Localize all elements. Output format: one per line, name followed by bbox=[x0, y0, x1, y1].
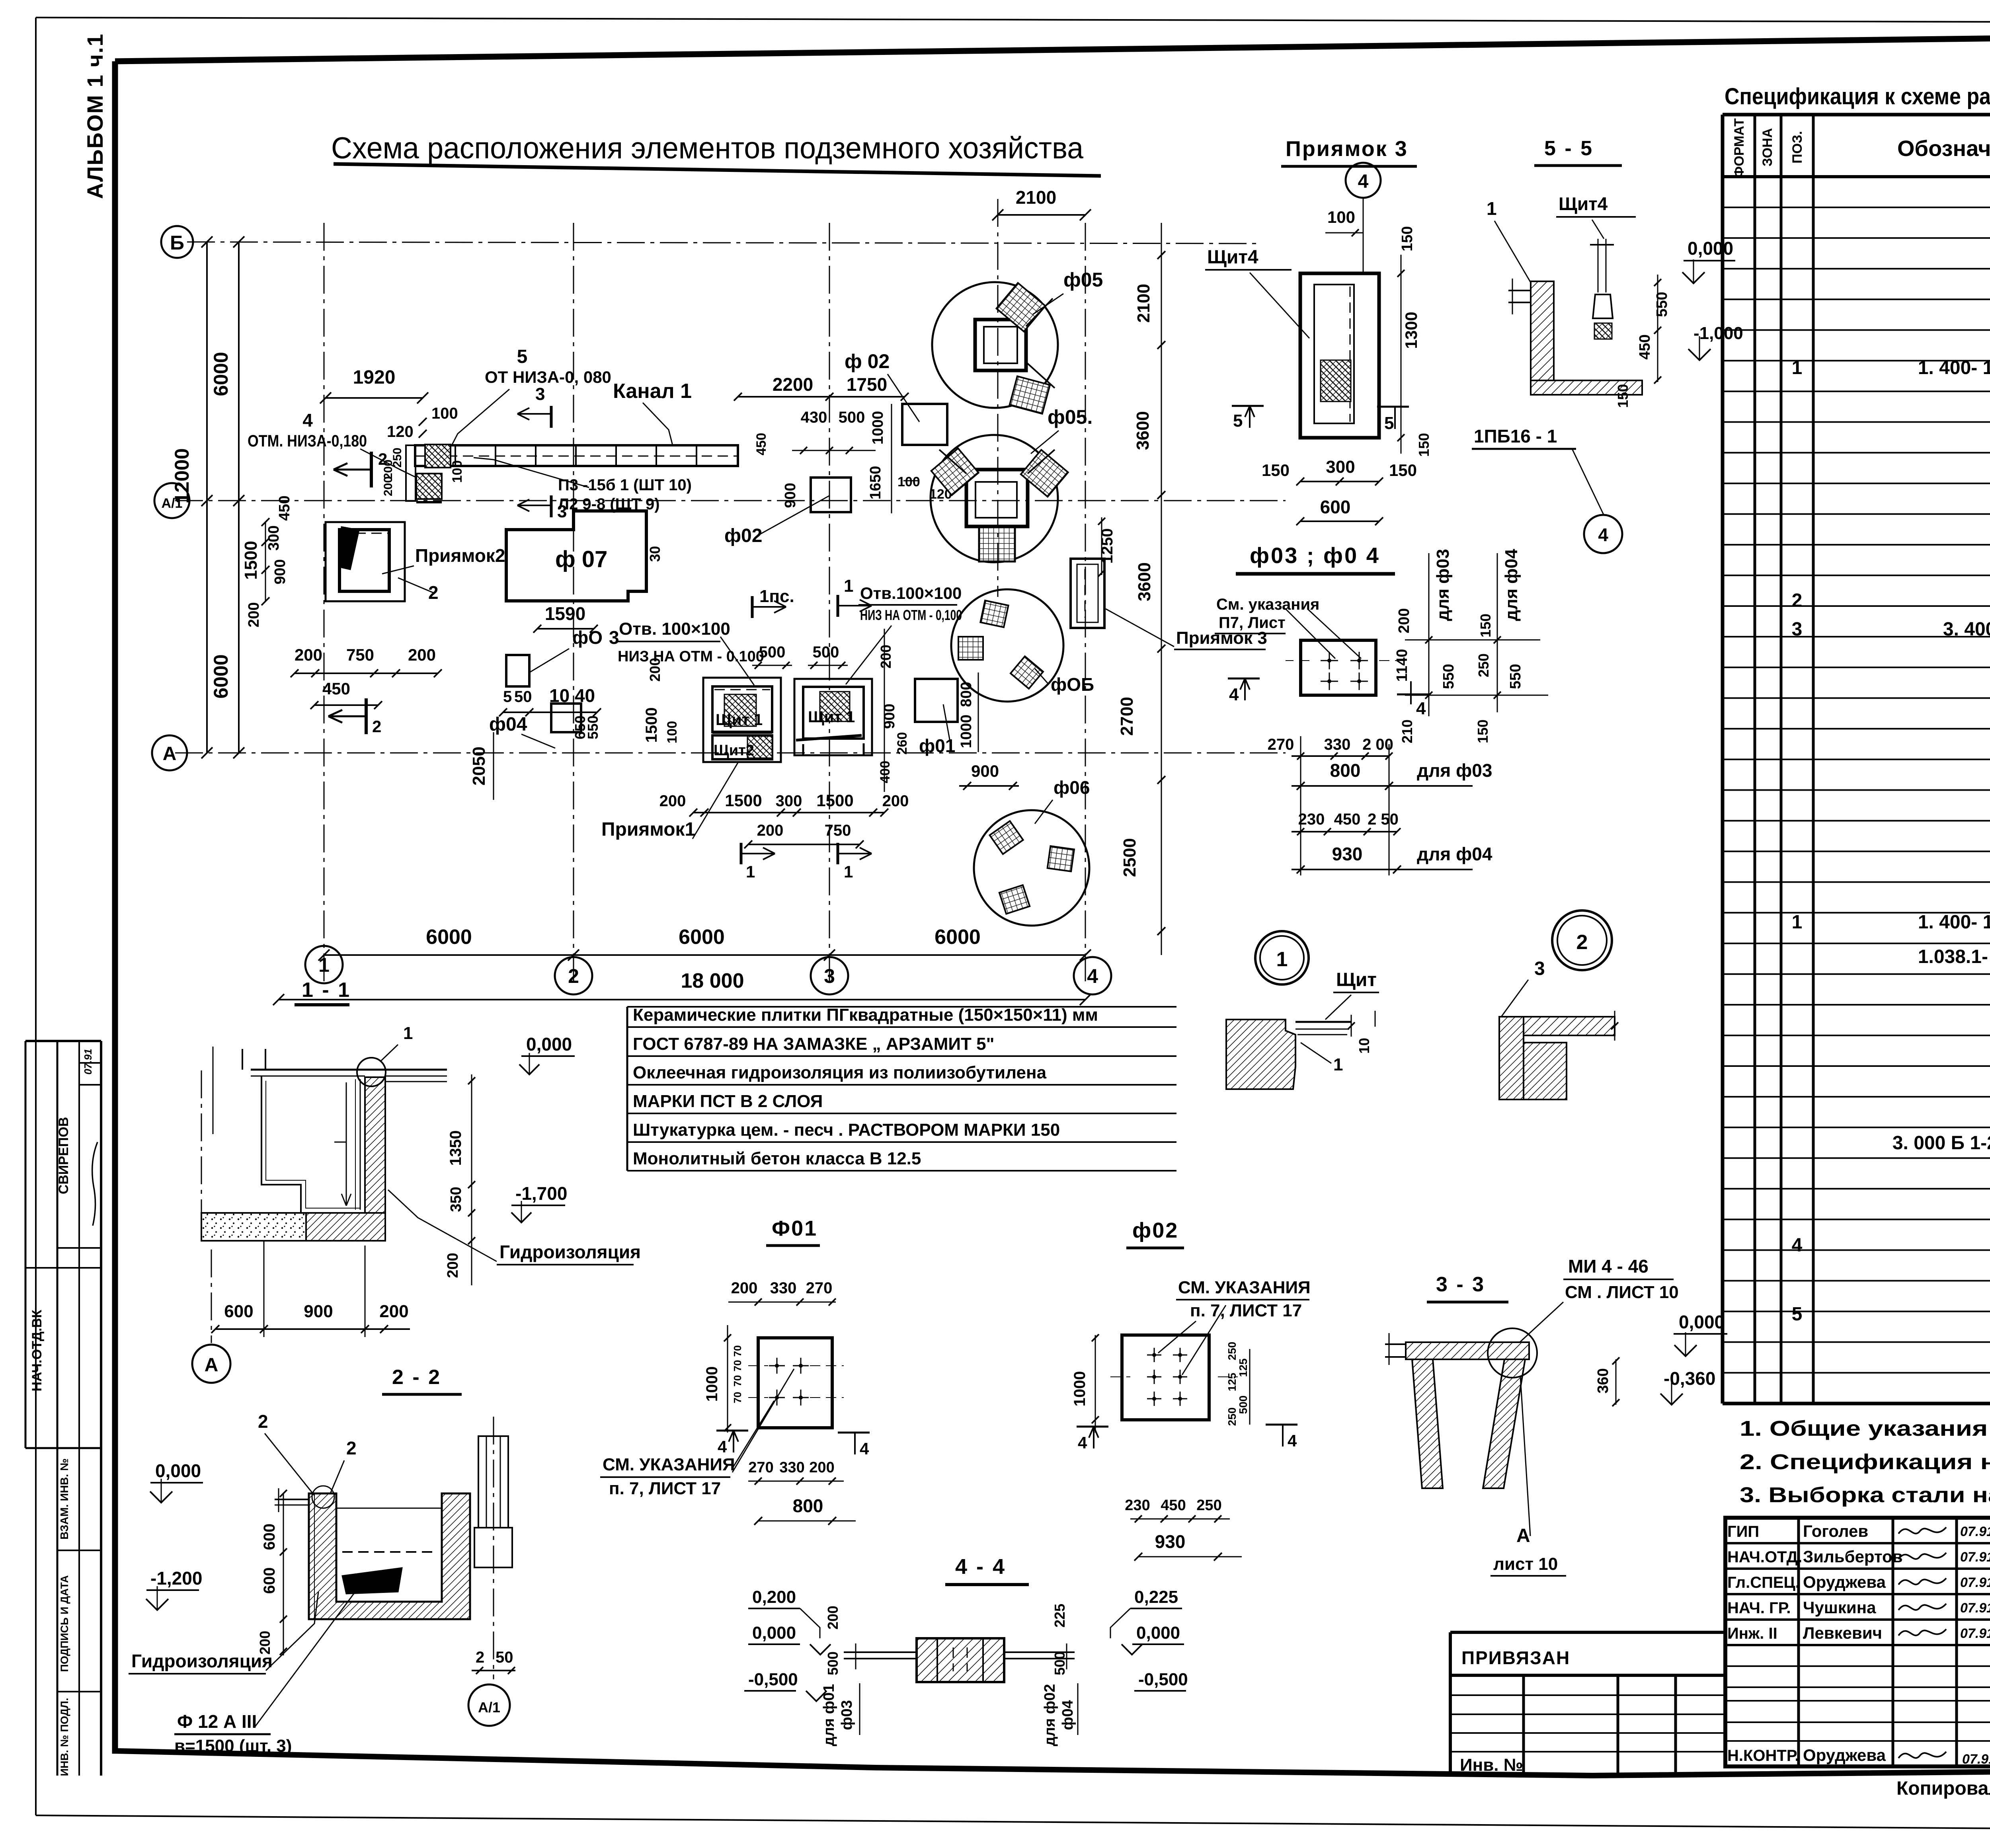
svg-text:1: 1 bbox=[1792, 357, 1803, 378]
svg-text:3: 3 bbox=[1534, 958, 1545, 979]
svg-text:2100: 2100 bbox=[1134, 284, 1153, 323]
svg-text:4: 4 bbox=[1087, 965, 1098, 987]
svg-text:АЛЬБОМ 1 ч.1: АЛЬБОМ 1 ч.1 bbox=[82, 33, 107, 199]
svg-text:900: 900 bbox=[881, 704, 898, 729]
svg-text:70: 70 bbox=[732, 1392, 743, 1404]
svg-text:0,000: 0,000 bbox=[752, 1623, 796, 1643]
svg-text:1500: 1500 bbox=[643, 708, 660, 743]
svg-text:500: 500 bbox=[759, 643, 786, 661]
svg-text:1300: 1300 bbox=[1402, 312, 1420, 349]
svg-text:750: 750 bbox=[825, 822, 851, 839]
svg-text:1750: 1750 bbox=[847, 374, 887, 395]
svg-text:для ф01: для ф01 bbox=[821, 1684, 837, 1747]
svg-text:4: 4 bbox=[1416, 699, 1426, 718]
svg-text:ф04: ф04 bbox=[489, 714, 527, 735]
svg-text:125: 125 bbox=[1237, 1359, 1249, 1377]
svg-text:ГОСТ 6787-89 НА ЗАМАЗКЕ „ А: ГОСТ 6787-89 НА ЗАМАЗКЕ „ АРЗАМИТ 5" bbox=[633, 1034, 994, 1054]
svg-text:200: 200 bbox=[445, 1253, 461, 1278]
svg-text:Канал 1: Канал 1 bbox=[613, 380, 692, 403]
svg-text:для ф04: для ф04 bbox=[1502, 549, 1521, 621]
svg-text:5: 5 bbox=[1792, 1304, 1803, 1325]
svg-text:2: 2 bbox=[476, 1649, 484, 1666]
svg-text:Ф01: Ф01 bbox=[772, 1216, 817, 1240]
svg-text:120: 120 bbox=[387, 423, 414, 441]
svg-text:4: 4 bbox=[860, 1439, 869, 1458]
svg-text:550: 550 bbox=[1654, 292, 1670, 317]
svg-text:для ф04: для ф04 bbox=[1417, 844, 1492, 864]
svg-text:550: 550 bbox=[1507, 664, 1524, 689]
svg-text:Ф 12 А III: Ф 12 А III bbox=[177, 1711, 257, 1732]
svg-text:70: 70 bbox=[732, 1345, 743, 1357]
svg-text:200: 200 bbox=[731, 1279, 758, 1297]
svg-text:ОТМ. НИЗА-0,180: ОТМ. НИЗА-0,180 bbox=[248, 431, 367, 450]
svg-text:200: 200 bbox=[379, 1302, 408, 1321]
svg-text:150: 150 bbox=[1399, 226, 1416, 251]
svg-text:МАРКИ ПСТ В 2 СЛОЯ: МАРКИ ПСТ В 2 СЛОЯ bbox=[633, 1092, 823, 1111]
svg-text:п. 7, ЛИСТ 17: п. 7, ЛИСТ 17 bbox=[609, 1479, 721, 1498]
svg-text:200: 200 bbox=[757, 822, 784, 839]
svg-text:500: 500 bbox=[1052, 1651, 1068, 1675]
svg-text:270: 270 bbox=[1268, 736, 1294, 753]
svg-text:500: 500 bbox=[825, 1651, 841, 1675]
svg-text:3. 400- 6/76: 3. 400- 6/76 bbox=[1943, 619, 1990, 640]
svg-text:1. 400- 15, вып.1: 1. 400- 15, вып.1 bbox=[1918, 357, 1990, 378]
svg-text:СМ . ЛИСТ 10: СМ . ЛИСТ 10 bbox=[1565, 1283, 1679, 1302]
svg-text:Щит: Щит bbox=[1336, 969, 1377, 990]
svg-text:Керамические плитки ПГквадра: Керамические плитки ПГквадратные (150×15… bbox=[633, 1005, 1098, 1025]
svg-text:5: 5 bbox=[517, 346, 528, 367]
svg-text:100: 100 bbox=[431, 405, 458, 422]
svg-text:200: 200 bbox=[659, 792, 686, 810]
svg-text:900: 900 bbox=[304, 1302, 333, 1321]
svg-text:для ф02: для ф02 bbox=[1042, 1684, 1058, 1747]
svg-text:250: 250 bbox=[1226, 1407, 1238, 1426]
svg-text:300: 300 bbox=[776, 792, 802, 810]
svg-text:фО: фО bbox=[572, 627, 603, 648]
svg-text:330: 330 bbox=[779, 1459, 804, 1476]
svg-text:200: 200 bbox=[408, 645, 436, 664]
svg-text:3. 000 Б 1-2. 87, вып.1: 3. 000 Б 1-2. 87, вып.1 bbox=[1892, 1133, 1990, 1154]
svg-text:07.91: 07.91 bbox=[1960, 1600, 1990, 1616]
svg-text:Левкевич: Левкевич bbox=[1803, 1624, 1882, 1642]
svg-text:2. Спецификация на Ф01 ÷: 2. Спецификация на Ф01 ÷ Ф04 дана на лис… bbox=[1740, 1450, 1990, 1474]
svg-text:600: 600 bbox=[1320, 497, 1351, 517]
svg-text:для ф03: для ф03 bbox=[1417, 760, 1492, 781]
svg-text:ОТ НИЗА-0, 080: ОТ НИЗА-0, 080 bbox=[485, 368, 611, 386]
svg-text:ПРИВЯЗАН: ПРИВЯЗАН bbox=[1461, 1647, 1570, 1668]
svg-text:250: 250 bbox=[1226, 1342, 1238, 1361]
svg-text:1. 400- 15, вып.1: 1. 400- 15, вып.1 bbox=[1918, 912, 1990, 933]
svg-text:2 - 2: 2 - 2 bbox=[392, 1366, 441, 1389]
svg-text:07.91: 07.91 bbox=[1960, 1575, 1990, 1590]
svg-text:2: 2 bbox=[258, 1411, 268, 1432]
svg-text:225: 225 bbox=[1052, 1604, 1068, 1628]
svg-text:150: 150 bbox=[1389, 461, 1417, 480]
svg-text:125: 125 bbox=[1226, 1373, 1238, 1392]
svg-text:ЗОНА: ЗОНА bbox=[1760, 128, 1775, 166]
svg-text:70: 70 bbox=[732, 1375, 743, 1387]
svg-text:ПОДПИСЬ И ДАТА: ПОДПИСЬ И ДАТА bbox=[59, 1575, 70, 1672]
svg-text:1: 1 bbox=[1487, 198, 1497, 219]
svg-text:800: 800 bbox=[1330, 760, 1361, 781]
svg-text:360: 360 bbox=[1595, 1368, 1612, 1393]
svg-text:СВИРЕПОВ: СВИРЕПОВ bbox=[56, 1117, 71, 1194]
svg-text:4: 4 bbox=[1078, 1433, 1087, 1452]
svg-text:3600: 3600 bbox=[1135, 562, 1154, 601]
svg-text:ФОРМАТ: ФОРМАТ bbox=[1732, 118, 1747, 178]
svg-text:ф02: ф02 bbox=[1132, 1218, 1178, 1242]
svg-text:800: 800 bbox=[793, 1495, 823, 1516]
svg-text:Копировал: Несмеянова,: Копировал: Несмеянова, bbox=[1896, 1778, 1990, 1799]
svg-text:600: 600 bbox=[261, 1567, 278, 1594]
svg-text:2: 2 bbox=[568, 965, 579, 987]
svg-text:150: 150 bbox=[1477, 614, 1494, 637]
svg-text:10: 10 bbox=[1356, 1038, 1372, 1054]
svg-text:Чушкина: Чушкина bbox=[1803, 1598, 1876, 1617]
svg-text:-0,500: -0,500 bbox=[1138, 1670, 1188, 1689]
svg-text:200: 200 bbox=[382, 476, 395, 496]
svg-text:1500: 1500 bbox=[725, 791, 762, 810]
svg-text:500: 500 bbox=[1237, 1396, 1249, 1414]
svg-text:450: 450 bbox=[754, 433, 769, 456]
svg-text:30: 30 bbox=[647, 546, 663, 562]
svg-text:4 - 4: 4 - 4 bbox=[955, 1555, 1006, 1579]
svg-text:СМ. УКАЗАНИЯ: СМ. УКАЗАНИЯ bbox=[603, 1455, 735, 1474]
svg-text:1350: 1350 bbox=[447, 1131, 464, 1166]
svg-text:900: 900 bbox=[971, 762, 999, 780]
svg-text:450: 450 bbox=[1637, 334, 1653, 359]
svg-text:200: 200 bbox=[825, 1606, 841, 1630]
svg-text:1590: 1590 bbox=[545, 603, 585, 624]
svg-text:НИЗ НА ОТМ - 0.100: НИЗ НА ОТМ - 0.100 bbox=[618, 648, 764, 665]
svg-text:150: 150 bbox=[1262, 461, 1290, 480]
svg-text:Спецификация к схеме расположе: Спецификация к схеме расположения элемен… bbox=[1725, 84, 1990, 109]
svg-text:350: 350 bbox=[448, 1187, 464, 1212]
svg-text:НИЗ НА ОТМ - 0,100: НИЗ НА ОТМ - 0,100 bbox=[860, 607, 962, 623]
svg-text:1000: 1000 bbox=[870, 411, 886, 445]
svg-text:Гоголев: Гоголев bbox=[1803, 1522, 1868, 1540]
svg-text:250: 250 bbox=[1475, 653, 1492, 677]
svg-text:Щит4: Щит4 bbox=[1207, 247, 1258, 268]
svg-text:1000: 1000 bbox=[1071, 1371, 1089, 1407]
svg-text:6000: 6000 bbox=[679, 926, 725, 949]
svg-text:2700: 2700 bbox=[1117, 697, 1137, 736]
svg-text:ф03 ; ф0 4: ф03 ; ф0 4 bbox=[1250, 543, 1380, 568]
svg-text:в=1500 (шт. 3): в=1500 (шт. 3) bbox=[174, 1736, 292, 1756]
svg-text:Штукатурка цем. - песч . РАСТ: Штукатурка цем. - песч . РАСТВОРОМ МАРКИ… bbox=[633, 1120, 1060, 1140]
svg-text:4: 4 bbox=[1229, 685, 1239, 704]
svg-text:3: 3 bbox=[535, 384, 545, 404]
svg-text:260: 260 bbox=[895, 732, 910, 755]
svg-text:150: 150 bbox=[1615, 384, 1631, 408]
svg-text:1: 1 bbox=[746, 862, 755, 881]
svg-text:1. Общие указания даны н: 1. Общие указания даны на листах 11, 17 bbox=[1740, 1417, 1990, 1441]
svg-text:4: 4 bbox=[302, 410, 313, 431]
svg-text:Схема расположения элементов: Схема расположения элементов подземного … bbox=[331, 131, 1084, 165]
svg-text:2: 2 bbox=[346, 1438, 357, 1458]
svg-text:250: 250 bbox=[391, 448, 404, 468]
svg-text:50: 50 bbox=[514, 688, 532, 706]
svg-text:ИНВ. № ПОДЛ.: ИНВ. № ПОДЛ. bbox=[59, 1698, 70, 1776]
svg-text:100: 100 bbox=[897, 474, 920, 489]
svg-text:0,000: 0,000 bbox=[1136, 1623, 1180, 1643]
svg-text:4: 4 bbox=[1288, 1431, 1297, 1450]
svg-text:600: 600 bbox=[261, 1524, 278, 1550]
svg-text:П3 -15б 1 (ШТ 10): П3 -15б 1 (ШТ 10) bbox=[558, 476, 692, 494]
svg-text:0,000: 0,000 bbox=[155, 1460, 201, 1481]
svg-text:А: А bbox=[205, 1355, 219, 1376]
svg-text:Обозначение: Обозначение bbox=[1897, 136, 1990, 161]
svg-text:-1,000: -1,000 bbox=[1693, 324, 1743, 343]
svg-text:1 - 1: 1 - 1 bbox=[302, 979, 351, 1002]
svg-text:Приямок1: Приямок1 bbox=[601, 819, 695, 840]
svg-text:2: 2 bbox=[1792, 590, 1803, 611]
svg-text:ПОЗ.: ПОЗ. bbox=[1790, 131, 1805, 164]
svg-text:930: 930 bbox=[1332, 844, 1363, 864]
svg-text:6000: 6000 bbox=[210, 654, 232, 698]
svg-text:6000: 6000 bbox=[426, 926, 472, 949]
svg-text:Зильбертов: Зильбертов bbox=[1803, 1547, 1903, 1566]
svg-text:Б: Б bbox=[170, 232, 184, 254]
svg-text:Щит4: Щит4 bbox=[1559, 193, 1608, 214]
svg-text:СМ. УКАЗАНИЯ: СМ. УКАЗАНИЯ bbox=[1178, 1278, 1311, 1297]
svg-text:750: 750 bbox=[346, 645, 374, 664]
svg-text:МИ 4 - 46: МИ 4 - 46 bbox=[1568, 1256, 1649, 1277]
svg-text:А: А bbox=[163, 743, 177, 764]
svg-text:1: 1 bbox=[318, 954, 330, 976]
svg-text:270: 270 bbox=[806, 1279, 833, 1297]
svg-text:4: 4 bbox=[718, 1437, 727, 1456]
svg-text:270: 270 bbox=[748, 1459, 773, 1476]
svg-text:п. 7, ЛИСТ 17: п. 7, ЛИСТ 17 bbox=[1190, 1301, 1302, 1320]
svg-text:330: 330 bbox=[770, 1279, 797, 1297]
svg-text:500: 500 bbox=[839, 409, 865, 426]
svg-text:100: 100 bbox=[450, 460, 465, 483]
svg-text:210: 210 bbox=[1399, 719, 1415, 743]
svg-text:2: 2 bbox=[1576, 931, 1588, 954]
svg-text:3: 3 bbox=[609, 627, 619, 648]
svg-text:Гл.СПЕЦ.: Гл.СПЕЦ. bbox=[1727, 1574, 1800, 1591]
svg-text:300: 300 bbox=[265, 525, 282, 550]
svg-text:НАЧ. ГР.: НАЧ. ГР. bbox=[1727, 1599, 1791, 1617]
svg-text:2100: 2100 bbox=[1016, 187, 1056, 208]
svg-text:А: А bbox=[1516, 1525, 1530, 1546]
svg-text:1.038.1- 1, вып.1: 1.038.1- 1, вып.1 bbox=[1918, 946, 1990, 967]
svg-text:18 000: 18 000 bbox=[681, 969, 744, 992]
svg-text:1920: 1920 bbox=[353, 367, 396, 388]
svg-text:1пс.: 1пс. bbox=[759, 587, 794, 606]
svg-text:-1,700: -1,700 bbox=[515, 1183, 567, 1204]
svg-text:200: 200 bbox=[295, 645, 322, 664]
svg-text:4: 4 bbox=[1598, 524, 1608, 545]
svg-text:200: 200 bbox=[246, 602, 262, 627]
svg-text:5: 5 bbox=[503, 688, 512, 706]
svg-text:100: 100 bbox=[1327, 208, 1355, 226]
svg-text:100: 100 bbox=[665, 721, 680, 744]
svg-text:230: 230 bbox=[1125, 1497, 1150, 1514]
svg-text:1: 1 bbox=[1333, 1055, 1343, 1074]
svg-text:2: 2 bbox=[372, 717, 381, 736]
svg-text:450: 450 bbox=[322, 679, 350, 698]
svg-text:Приямок 3: Приямок 3 bbox=[1286, 137, 1408, 161]
svg-text:Отв.100×100: Отв.100×100 bbox=[860, 584, 962, 602]
svg-text:200: 200 bbox=[878, 645, 894, 669]
svg-text:0,000: 0,000 bbox=[1688, 238, 1733, 259]
svg-text:П7, Лист: П7, Лист bbox=[1219, 614, 1286, 632]
svg-text:200: 200 bbox=[882, 792, 909, 810]
svg-text:2 50: 2 50 bbox=[1368, 811, 1399, 828]
svg-text:450: 450 bbox=[276, 495, 293, 520]
svg-text:ф05.: ф05. bbox=[1048, 406, 1093, 428]
svg-text:07.91: 07.91 bbox=[82, 1049, 94, 1074]
svg-text:1: 1 bbox=[844, 576, 853, 596]
svg-text:1: 1 bbox=[1276, 948, 1288, 971]
svg-text:6000: 6000 bbox=[935, 926, 981, 949]
svg-text:2200: 2200 bbox=[773, 374, 813, 395]
svg-text:3: 3 bbox=[824, 965, 835, 987]
svg-text:Гидроизоляция: Гидроизоляция bbox=[499, 1242, 641, 1262]
svg-text:НАЧ.ОТД.ВК: НАЧ.ОТД.ВК bbox=[29, 1310, 45, 1391]
svg-text:800: 800 bbox=[958, 682, 975, 707]
svg-text:ф05: ф05 bbox=[1063, 269, 1103, 291]
svg-text:0,200: 0,200 bbox=[752, 1587, 796, 1607]
svg-text:См. указания: См. указания bbox=[1216, 596, 1319, 613]
svg-text:ф04: ф04 bbox=[1059, 1700, 1076, 1730]
svg-text:Оруджева: Оруджева bbox=[1803, 1746, 1886, 1764]
svg-text:для ф03: для ф03 bbox=[1433, 549, 1453, 621]
svg-text:Отв. 100×100: Отв. 100×100 bbox=[619, 619, 730, 639]
svg-text:ф03: ф03 bbox=[839, 1700, 855, 1730]
svg-text:Инж. II: Инж. II bbox=[1727, 1625, 1777, 1642]
svg-text:0,000: 0,000 bbox=[1679, 1312, 1725, 1332]
svg-text:ГИП: ГИП bbox=[1727, 1523, 1759, 1540]
svg-text:930: 930 bbox=[1155, 1531, 1186, 1552]
svg-text:1ПБ16 - 1: 1ПБ16 - 1 bbox=[1474, 426, 1557, 446]
svg-text:лист 10: лист 10 bbox=[1493, 1554, 1558, 1574]
svg-text:ф 02: ф 02 bbox=[845, 350, 890, 372]
svg-text:3 - 3: 3 - 3 bbox=[1436, 1273, 1485, 1296]
svg-text:0,000: 0,000 bbox=[526, 1034, 572, 1055]
svg-text:фОБ: фОБ bbox=[1051, 674, 1094, 695]
svg-text:70: 70 bbox=[732, 1360, 743, 1372]
svg-text:600: 600 bbox=[224, 1302, 253, 1321]
svg-text:4: 4 bbox=[1358, 171, 1369, 192]
svg-text:5: 5 bbox=[1384, 413, 1394, 433]
svg-text:12000: 12000 bbox=[171, 448, 193, 503]
svg-text:Щит 1: Щит 1 bbox=[716, 711, 763, 729]
svg-text:-1,200: -1,200 bbox=[150, 1568, 202, 1589]
svg-text:550: 550 bbox=[1440, 664, 1457, 689]
svg-text:Щит 1: Щит 1 bbox=[808, 708, 855, 726]
svg-text:Щит2: Щит2 bbox=[714, 742, 754, 759]
svg-text:500: 500 bbox=[813, 643, 839, 661]
svg-text:150: 150 bbox=[1416, 433, 1432, 457]
svg-text:1: 1 bbox=[844, 862, 853, 881]
svg-text:200: 200 bbox=[647, 658, 663, 682]
svg-text:-0,500: -0,500 bbox=[748, 1670, 798, 1689]
svg-text:3: 3 bbox=[557, 502, 567, 521]
svg-text:1140: 1140 bbox=[1394, 649, 1411, 682]
svg-text:400: 400 bbox=[878, 761, 893, 784]
svg-text:Гидроизоляция: Гидроизоляция bbox=[131, 1651, 273, 1671]
svg-text:А/1: А/1 bbox=[478, 1699, 500, 1715]
svg-text:550: 550 bbox=[585, 715, 601, 739]
svg-text:330: 330 bbox=[1324, 736, 1351, 753]
svg-text:3600: 3600 bbox=[1133, 411, 1153, 450]
svg-text:1000: 1000 bbox=[703, 1367, 721, 1402]
svg-text:200: 200 bbox=[1396, 608, 1413, 633]
svg-text:Монолитный бетон класса: Монолитный бетон класса В 12.5 bbox=[633, 1149, 921, 1168]
svg-text:07.91: 07.91 bbox=[1960, 1524, 1990, 1539]
svg-text:3: 3 bbox=[1792, 619, 1803, 640]
svg-text:50: 50 bbox=[496, 1649, 513, 1666]
svg-text:2050: 2050 bbox=[469, 747, 489, 786]
svg-text:ф06: ф06 bbox=[1054, 777, 1090, 798]
svg-text:07.91: 07.91 bbox=[1962, 1752, 1990, 1767]
svg-text:1500: 1500 bbox=[241, 541, 261, 580]
svg-text:300: 300 bbox=[1326, 457, 1355, 477]
svg-text:900: 900 bbox=[782, 483, 799, 508]
svg-text:ВЗАМ. ИНВ. №: ВЗАМ. ИНВ. № bbox=[58, 1458, 70, 1540]
svg-text:Приямок2: Приямок2 bbox=[415, 545, 505, 566]
svg-text:6000: 6000 bbox=[210, 352, 232, 396]
svg-text:150: 150 bbox=[1475, 719, 1491, 743]
svg-text:07.91: 07.91 bbox=[1960, 1626, 1990, 1641]
svg-text:5 - 5: 5 - 5 bbox=[1544, 137, 1594, 160]
svg-text:900: 900 bbox=[272, 559, 289, 584]
svg-text:ф 07: ф 07 bbox=[555, 546, 607, 572]
svg-text:07.91: 07.91 bbox=[1960, 1550, 1990, 1565]
svg-text:4: 4 bbox=[1792, 1235, 1803, 1256]
svg-text:Оруджева: Оруджева bbox=[1803, 1573, 1886, 1591]
svg-text:230: 230 bbox=[1298, 811, 1325, 828]
svg-text:3. Выборка стали на приямк: 3. Выборка стали на приямки дана на лист… bbox=[1740, 1483, 1990, 1507]
svg-text:1: 1 bbox=[403, 1023, 413, 1043]
svg-text:Оклеечная гидроизоляция из п: Оклеечная гидроизоляция из полиизобутиле… bbox=[633, 1063, 1047, 1082]
svg-text:2500: 2500 bbox=[1120, 838, 1139, 877]
svg-text:1000: 1000 bbox=[958, 715, 975, 749]
svg-text:200: 200 bbox=[809, 1459, 834, 1476]
svg-text:450: 450 bbox=[1334, 811, 1361, 828]
svg-text:1: 1 bbox=[1792, 912, 1803, 933]
svg-text:430: 430 bbox=[801, 409, 827, 426]
svg-text:5: 5 bbox=[1233, 411, 1243, 431]
svg-text:НАЧ.ОТД.: НАЧ.ОТД. bbox=[1727, 1548, 1802, 1566]
svg-text:Инв. №: Инв. № bbox=[1460, 1755, 1523, 1775]
svg-text:250: 250 bbox=[1196, 1497, 1221, 1514]
svg-text:1500: 1500 bbox=[816, 791, 853, 810]
svg-text:0,225: 0,225 bbox=[1134, 1587, 1178, 1607]
svg-text:Н.КОНТР.: Н.КОНТР. bbox=[1727, 1747, 1799, 1764]
svg-text:450: 450 bbox=[1161, 1497, 1186, 1514]
svg-text:ф02: ф02 bbox=[724, 525, 762, 546]
svg-text:1650: 1650 bbox=[867, 466, 884, 500]
